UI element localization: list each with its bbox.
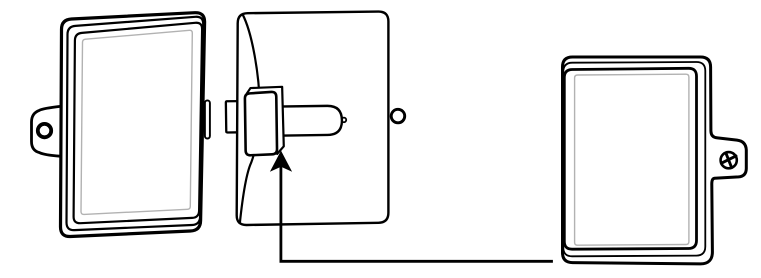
housing interior dome curve xyxy=(237,14,262,224)
lamp socket block 3D side xyxy=(247,87,284,154)
right box outer shell with screw tab xyxy=(563,57,747,264)
middle housing body xyxy=(237,12,389,225)
housing latch hole xyxy=(391,109,405,123)
lamp socket block front face xyxy=(245,92,277,155)
right box inner rim xyxy=(564,68,696,249)
screw head xyxy=(721,152,737,168)
screw cross slot xyxy=(721,153,736,168)
middle housing hinge tab xyxy=(226,101,240,132)
left lid middle rim xyxy=(67,17,204,230)
right box window (gray) xyxy=(575,74,689,245)
leader line xyxy=(281,162,553,261)
left lid hinge knuckle xyxy=(205,100,210,138)
lamp bulb cylinder xyxy=(277,106,342,136)
left lid mounting tab xyxy=(32,106,61,156)
left lid outer shell xyxy=(61,13,205,237)
left lid inner rim xyxy=(74,23,203,223)
left lid window (gray) xyxy=(81,30,192,214)
right box middle rim xyxy=(563,62,705,256)
arrowhead xyxy=(270,151,292,172)
bulb tip nub xyxy=(342,118,347,123)
left lid tab hole xyxy=(38,124,51,137)
